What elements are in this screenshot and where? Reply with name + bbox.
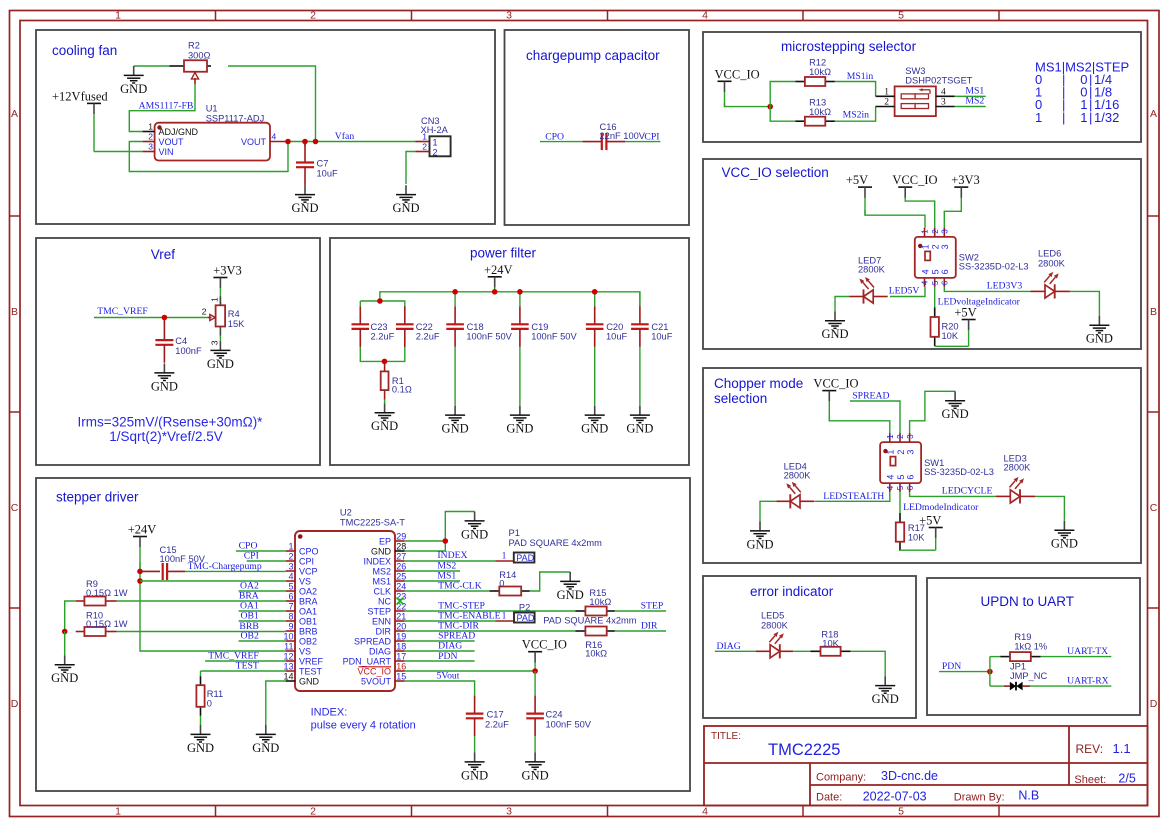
- svg-text:0: 0: [207, 699, 212, 709]
- svg-text:28: 28: [396, 542, 406, 552]
- ground: [442, 406, 469, 436]
- power flag +5V: [954, 306, 976, 347]
- wire: [406, 152, 415, 185]
- svg-text:OB1: OB1: [240, 611, 258, 622]
- wire 5Vout: [405, 681, 475, 696]
- svg-text:20: 20: [396, 622, 406, 632]
- wire pin14 GND: [266, 681, 286, 725]
- wire SPREAD: [850, 401, 900, 434]
- svg-text:6: 6: [940, 269, 950, 274]
- svg-text:12: 12: [283, 652, 293, 662]
- wire TMC-CLK: [405, 590, 490, 592]
- wire SPREAD: [405, 640, 475, 642]
- wire TMC-Chargepump: [185, 570, 286, 572]
- svg-text:DIAG: DIAG: [717, 641, 741, 652]
- svg-text:R4: R4: [228, 309, 240, 319]
- section box Chopper mode selection: [703, 368, 1141, 563]
- svg-text:TEST: TEST: [299, 666, 323, 676]
- svg-text:power filter: power filter: [470, 246, 537, 261]
- wire: [760, 501, 776, 521]
- svg-text:INDEX:: INDEX:: [311, 707, 348, 719]
- resistor R19: [1000, 632, 1047, 661]
- svg-text:U2: U2: [340, 508, 352, 518]
- svg-text:6: 6: [905, 475, 915, 480]
- svg-text:2: 2: [931, 229, 940, 234]
- svg-text:13: 13: [283, 662, 293, 672]
- svg-text:VIN: VIN: [159, 147, 174, 157]
- LED LED3: [996, 453, 1035, 503]
- svg-text:1/Sqrt(2)*Vref/2.5V: 1/Sqrt(2)*Vref/2.5V: [109, 429, 223, 444]
- wire LEDvoltageIndicator: [934, 287, 936, 308]
- wire DIAG: [715, 650, 756, 652]
- svg-text:OB2: OB2: [299, 636, 317, 646]
- wire LEDmodeIndicator: [899, 492, 901, 513]
- svg-text:CPO: CPO: [545, 131, 564, 142]
- svg-text:GND: GND: [371, 546, 392, 556]
- svg-text:1/32: 1/32: [1094, 110, 1119, 125]
- section box stepper driver: [36, 478, 690, 791]
- svg-text:CPO: CPO: [299, 546, 319, 556]
- wire: [770, 82, 795, 107]
- svg-text:GND: GND: [821, 327, 848, 341]
- svg-text:100nF 50V: 100nF 50V: [546, 719, 592, 729]
- svg-text:5: 5: [931, 280, 940, 285]
- wire: [359, 301, 361, 306]
- wire VCC_IO: [405, 670, 535, 672]
- LED LED5: [756, 611, 794, 659]
- svg-text:SSP1117-ADJ: SSP1117-ADJ: [206, 113, 265, 123]
- wire CPI: [625, 141, 660, 143]
- svg-text:STEP: STEP: [641, 601, 664, 612]
- svg-text:8: 8: [288, 612, 293, 622]
- pad P2: [495, 603, 636, 626]
- svg-text:1: 1: [884, 87, 889, 97]
- svg-text:VS: VS: [299, 646, 311, 656]
- ground: [821, 311, 848, 341]
- ground: [506, 406, 533, 436]
- svg-text:4: 4: [702, 806, 708, 818]
- wire: [990, 656, 1000, 658]
- capacitor C23: [352, 306, 395, 347]
- svg-text:3: 3: [941, 98, 946, 108]
- wire: [219, 336, 221, 342]
- svg-text:C: C: [11, 502, 19, 514]
- ground: [746, 522, 773, 552]
- power flag +12Vfused: [52, 89, 108, 151]
- svg-text:GND: GND: [522, 768, 549, 782]
- svg-text:21: 21: [396, 612, 406, 622]
- svg-text:MS1in: MS1in: [847, 71, 874, 82]
- svg-text:1: 1: [288, 542, 293, 552]
- wire OB1: [239, 620, 286, 622]
- section box error indicator: [703, 576, 916, 718]
- svg-text:1: 1: [115, 10, 121, 22]
- title block texts: [711, 731, 1136, 804]
- svg-text:SPREAD: SPREAD: [354, 636, 392, 646]
- svg-text:GND: GND: [942, 407, 969, 421]
- svg-text:VCC_IO: VCC_IO: [813, 377, 858, 391]
- svg-text:2.2uF: 2.2uF: [416, 331, 440, 341]
- svg-text:25: 25: [396, 572, 406, 582]
- wire C23 C22 bottom rail: [360, 345, 405, 361]
- wire C23 C22 top rail: [360, 301, 405, 307]
- svg-text:26: 26: [396, 562, 406, 572]
- svg-text:2800K: 2800K: [784, 471, 812, 481]
- LED LED7: [850, 256, 888, 304]
- svg-text:C4: C4: [175, 336, 187, 346]
- capacitor C17: [466, 696, 509, 737]
- svg-text:UART-TX: UART-TX: [1067, 646, 1108, 657]
- wire: [905, 200, 935, 228]
- wire: [851, 651, 886, 676]
- svg-text:GND: GND: [187, 741, 214, 755]
- svg-text:2: 2: [896, 434, 905, 439]
- svg-text:1: 1: [502, 612, 507, 622]
- svg-text:VCP: VCP: [299, 566, 318, 576]
- section box chargepump capacitor: [505, 30, 690, 225]
- svg-text:GND: GND: [299, 676, 320, 686]
- svg-text:JP1: JP1: [1010, 662, 1026, 672]
- svg-text:LED3V3: LED3V3: [987, 281, 1023, 292]
- svg-text:LED5: LED5: [761, 611, 784, 621]
- svg-text:TMC2225: TMC2225: [768, 741, 840, 759]
- svg-text:OB2: OB2: [240, 631, 258, 642]
- jumper JP1 JMP_NC: [1004, 662, 1047, 691]
- wire: [117, 600, 286, 602]
- svg-text:2/5: 2/5: [1118, 772, 1135, 786]
- svg-text:0.15Ω 1W: 0.15Ω 1W: [86, 588, 128, 598]
- svg-text:2800K: 2800K: [1004, 463, 1032, 473]
- svg-text:0: 0: [499, 578, 504, 588]
- svg-text:5: 5: [896, 475, 906, 480]
- svg-text:selection: selection: [714, 391, 767, 406]
- svg-text:OA2: OA2: [240, 581, 259, 592]
- wire: [594, 347, 596, 406]
- svg-text:2: 2: [202, 307, 207, 317]
- svg-text:GND: GND: [51, 671, 78, 685]
- svg-text:stepper driver: stepper driver: [56, 490, 139, 505]
- svg-text:5: 5: [898, 806, 904, 818]
- svg-text:7: 7: [288, 602, 293, 612]
- svg-text:SS-3235D-02-L3: SS-3235D-02-L3: [959, 262, 1029, 272]
- svg-text:Company:: Company:: [816, 772, 866, 784]
- node junction: [443, 538, 449, 544]
- note Irms formula: [78, 415, 264, 445]
- svg-text:4: 4: [702, 10, 708, 22]
- svg-text:3: 3: [906, 434, 915, 439]
- node junction: [137, 578, 143, 584]
- svg-text:TMC-Chargepump: TMC-Chargepump: [188, 561, 262, 572]
- svg-text:A: A: [11, 108, 18, 120]
- wire: [530, 572, 570, 591]
- wire MS1: [405, 580, 460, 582]
- svg-text:1: 1: [886, 434, 895, 439]
- svg-text:1kΩ 1%: 1kΩ 1%: [1014, 641, 1047, 651]
- section box Vref: [36, 238, 320, 465]
- wire MS2: [405, 570, 460, 572]
- wire: [835, 297, 850, 312]
- capacitor C18: [446, 306, 512, 347]
- wire: [134, 65, 170, 67]
- svg-text:Chopper mode: Chopper mode: [714, 376, 803, 391]
- ground: [371, 403, 398, 433]
- wire: [594, 292, 596, 307]
- wire TMC-STEP: [405, 610, 576, 612]
- svg-text:microstepping selector: microstepping selector: [781, 39, 917, 54]
- wire OA1: [239, 610, 286, 612]
- power flag +24V: [484, 263, 513, 292]
- node junction dots rail: [452, 289, 597, 295]
- svg-text:MS2: MS2: [965, 96, 984, 107]
- svg-text:2800K: 2800K: [761, 621, 789, 631]
- svg-text:3: 3: [905, 450, 915, 455]
- ground: [1086, 316, 1113, 346]
- wire Vfan: [288, 141, 416, 143]
- wire UART-RX: [1030, 685, 1111, 687]
- svg-text:D: D: [1150, 698, 1158, 710]
- resistor R10: [76, 611, 128, 637]
- svg-text:GND: GND: [442, 422, 469, 436]
- svg-text:GND: GND: [506, 422, 533, 436]
- ground: [392, 185, 419, 215]
- svg-text:VCC_IO: VCC_IO: [715, 67, 760, 81]
- switch SW3 DSHP02TSGET: [876, 66, 973, 116]
- capacitor C19: [511, 306, 577, 347]
- svg-text:Drawn By:: Drawn By:: [954, 792, 1005, 804]
- svg-text:DSHP02TSGET: DSHP02TSGET: [905, 76, 972, 86]
- svg-text:UART-RX: UART-RX: [1067, 676, 1109, 687]
- power flag +5V: [919, 514, 943, 551]
- svg-text:GND: GND: [557, 588, 584, 602]
- svg-text:1: 1: [921, 229, 930, 234]
- wire LED3V3: [944, 287, 1030, 292]
- svg-text:PAD SQUARE 4x2mm: PAD SQUARE 4x2mm: [509, 538, 603, 548]
- svg-text:LEDmodeIndicator: LEDmodeIndicator: [903, 502, 979, 513]
- svg-text:MS2: MS2: [372, 566, 391, 576]
- wire: [519, 347, 521, 406]
- svg-text:10uF: 10uF: [317, 168, 339, 178]
- svg-text:VREF: VREF: [299, 656, 324, 666]
- wire: [534, 736, 536, 752]
- power flag VCC_IO: [892, 173, 937, 201]
- svg-text:4: 4: [886, 475, 896, 480]
- node junction: [62, 629, 68, 635]
- svg-text:11: 11: [284, 642, 293, 652]
- svg-text:SS-3235D-02-L3: SS-3235D-02-L3: [924, 467, 994, 477]
- svg-text:EP: EP: [379, 536, 391, 546]
- svg-text:Vfan: Vfan: [335, 131, 355, 142]
- svg-text:4: 4: [272, 132, 277, 142]
- node junction dots VOUT: [285, 139, 318, 145]
- switch SW2 SS-3235D-02-L3: [915, 237, 956, 278]
- svg-text:3: 3: [210, 340, 220, 345]
- svg-text:2: 2: [931, 244, 941, 249]
- ground: [522, 753, 549, 783]
- node junction: [382, 359, 388, 365]
- svg-text:GND: GND: [626, 422, 653, 436]
- svg-text:Vref: Vref: [151, 247, 176, 262]
- svg-text:PAD: PAD: [517, 613, 535, 623]
- svg-text:GND: GND: [461, 768, 488, 782]
- wire: [910, 391, 956, 434]
- svg-text:ENN: ENN: [372, 616, 391, 626]
- ground: [1051, 521, 1078, 551]
- svg-text:2: 2: [896, 450, 906, 455]
- section box microstepping selector: [703, 32, 1141, 142]
- svg-text:MS2in: MS2in: [843, 110, 870, 121]
- svg-text:GND: GND: [207, 357, 234, 371]
- svg-text:Date:: Date:: [816, 792, 842, 804]
- wire MS1in: [835, 82, 876, 97]
- svg-text:3: 3: [148, 142, 153, 152]
- svg-text:24: 24: [396, 582, 406, 592]
- ground: [51, 655, 78, 685]
- svg-text:B: B: [1150, 306, 1157, 318]
- svg-text:BRB: BRB: [299, 626, 318, 636]
- svg-text:GND: GND: [461, 527, 488, 541]
- wire +24V to VS pins: [140, 562, 286, 651]
- wire LEDSTEALTH: [815, 492, 890, 501]
- svg-text:5Vout: 5Vout: [437, 671, 460, 682]
- node junction: [377, 298, 383, 304]
- no-connect X pin 23: [397, 598, 404, 605]
- wire PDN: [405, 660, 475, 662]
- wire DIAG: [405, 650, 475, 652]
- svg-text:2.2uF: 2.2uF: [371, 331, 395, 341]
- svg-text:10uF: 10uF: [651, 331, 673, 341]
- svg-text:1.1: 1.1: [1113, 741, 1131, 756]
- svg-text:VCC_IO: VCC_IO: [357, 666, 391, 676]
- connector CN3 XH-2A: [415, 116, 450, 157]
- resistor R2: [170, 41, 212, 85]
- svg-text:5: 5: [931, 269, 941, 274]
- wire BRB: [117, 631, 286, 633]
- svg-text:17: 17: [396, 652, 406, 662]
- svg-text:LED6: LED6: [1038, 248, 1061, 258]
- wire: [989, 657, 991, 687]
- svg-text:CPI: CPI: [644, 131, 659, 142]
- section box UPDN to UART: [927, 578, 1140, 715]
- resistor R17: [896, 513, 925, 551]
- ground: [252, 725, 279, 755]
- svg-text:ADJ/GND: ADJ/GND: [159, 127, 199, 137]
- resistor R13: [795, 98, 835, 126]
- wire top rail: [380, 292, 640, 307]
- ground: [207, 341, 234, 371]
- resistor R16: [576, 627, 615, 659]
- wire: [865, 210, 925, 228]
- ground: [120, 66, 147, 96]
- resistor R1: [381, 361, 412, 399]
- wire INDEX: [405, 560, 496, 562]
- svg-text:TEST: TEST: [236, 661, 259, 672]
- wire UART-TX: [1041, 656, 1112, 658]
- ground: [872, 676, 899, 706]
- ground: [291, 185, 318, 215]
- wire: [794, 650, 811, 652]
- svg-text:P2: P2: [519, 603, 530, 613]
- svg-text:OA1: OA1: [299, 606, 317, 616]
- wire CPO: [540, 141, 583, 143]
- wire OA2: [239, 590, 286, 592]
- svg-text:R11: R11: [207, 689, 223, 699]
- svg-text:PDN_UART: PDN_UART: [343, 656, 392, 666]
- wire: [384, 400, 386, 404]
- svg-text:DIAG: DIAG: [369, 646, 391, 656]
- svg-text:A: A: [1150, 108, 1157, 120]
- svg-text:2.2uF: 2.2uF: [485, 719, 509, 729]
- wire LED5V: [890, 287, 925, 297]
- svg-text:GND: GND: [120, 82, 147, 96]
- wire STEP: [615, 610, 666, 612]
- svg-text:5VOUT: 5VOUT: [361, 676, 392, 686]
- wire CPI: [247, 560, 286, 562]
- svg-text:R2: R2: [188, 41, 200, 51]
- svg-text:TMC_VREF: TMC_VREF: [97, 306, 148, 317]
- svg-text:N.B: N.B: [1018, 789, 1039, 803]
- wire: [1070, 291, 1100, 316]
- svg-text:OB1: OB1: [299, 616, 317, 626]
- wire: [770, 107, 795, 122]
- svg-text:+24V: +24V: [484, 263, 513, 277]
- capacitor C7: [296, 143, 338, 186]
- wire: [228, 66, 316, 142]
- wire PDN: [939, 671, 990, 673]
- svg-text:NC: NC: [378, 596, 391, 606]
- wire: [725, 103, 771, 107]
- svg-text:C17: C17: [487, 710, 504, 720]
- svg-text:pulse every 4 rotation: pulse every 4 rotation: [311, 720, 416, 732]
- svg-text:DIR: DIR: [376, 626, 392, 636]
- wire EP GND: [405, 540, 446, 542]
- svg-text:GND: GND: [581, 422, 608, 436]
- svg-text:INDEX: INDEX: [437, 550, 467, 561]
- wire: [944, 210, 961, 228]
- wire TMC_VREF: [205, 660, 286, 662]
- svg-text:PDN: PDN: [942, 661, 961, 672]
- svg-text:BRA: BRA: [299, 596, 318, 606]
- svg-text:3: 3: [941, 229, 950, 234]
- svg-text:1: 1: [1035, 110, 1042, 125]
- capacitor C22: [396, 306, 440, 347]
- svg-text:PDN: PDN: [438, 651, 457, 662]
- title block: [704, 726, 1148, 806]
- wire: [519, 292, 521, 307]
- svg-text:DIR: DIR: [641, 620, 658, 631]
- svg-text:VCC_IO: VCC_IO: [892, 173, 937, 187]
- wire: [200, 716, 202, 725]
- wire OB2: [239, 640, 286, 642]
- section box VCC_IO selection: [703, 159, 1141, 349]
- wire: [534, 671, 536, 696]
- svg-text:15: 15: [396, 672, 406, 682]
- svg-text:10uF: 10uF: [606, 331, 628, 341]
- svg-text:2: 2: [310, 10, 316, 22]
- svg-text:+3V3: +3V3: [213, 264, 242, 278]
- svg-text:GND: GND: [151, 379, 178, 393]
- wire: [829, 418, 890, 434]
- svg-text:100nF 50V: 100nF 50V: [531, 331, 577, 341]
- capacitor C4: [155, 320, 202, 363]
- resistor R12: [795, 58, 835, 87]
- ground: [557, 572, 584, 602]
- wire MS1: [955, 95, 986, 97]
- resistor R18: [810, 630, 850, 656]
- wire: [900, 549, 936, 551]
- wire MS2: [955, 106, 986, 108]
- svg-text:300Ω: 300Ω: [188, 51, 211, 61]
- svg-text:1: 1: [210, 297, 220, 302]
